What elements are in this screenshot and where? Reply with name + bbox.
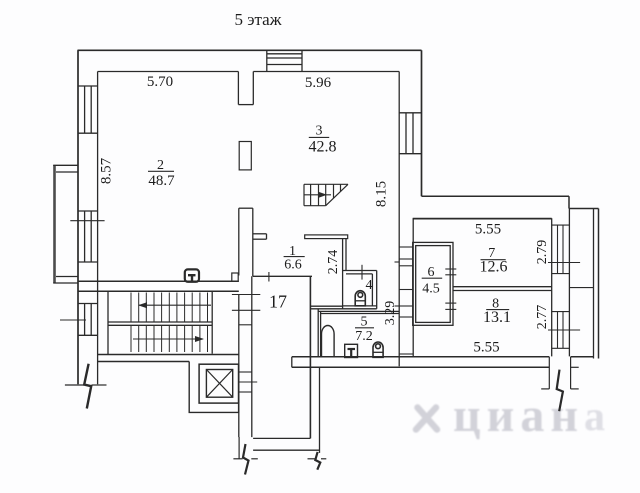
svg-text:17: 17 [269,292,287,312]
rotated dims [98,157,550,329]
bottom right pier + break [541,357,579,411]
corridor17 right wall [310,276,319,453]
stairwell box [98,291,239,362]
corridor17 left hatched wall [232,276,260,437]
svg-text:5.55: 5.55 [475,222,501,238]
svg-text:7.2: 7.2 [355,329,373,344]
window right of room3 [399,113,421,154]
svg-text:5.70: 5.70 [147,74,173,90]
rooms7/8 right window wall [552,209,570,357]
inner left wall [97,72,99,385]
room2 bottom wall [78,281,239,291]
svg-text:6.6: 6.6 [284,258,302,273]
window W2 left (balcony door) [70,211,104,262]
bathtub [322,326,335,358]
break symbol left wall bottom [65,364,107,409]
svg-text:циан: циан [453,389,584,442]
window room7 [548,225,580,274]
window room8 [548,312,580,349]
svg-text:4.5: 4.5 [422,282,440,297]
svg-text:2.79: 2.79 [535,240,550,265]
bottom wall main [292,357,594,368]
svg-text:3: 3 [316,124,323,139]
shaft strip walls [395,218,414,356]
window W1 left [78,86,98,133]
vent icon T on wall [185,269,199,281]
svg-text:48.7: 48.7 [148,173,175,189]
svg-text:2.74: 2.74 [326,250,341,275]
room7/8 left wall door ticks [445,269,456,309]
balcony left [53,165,78,283]
stair treads [108,293,212,353]
room5 block walls [310,306,399,357]
texts dims top [147,74,501,356]
right wing inner top wall [413,218,552,220]
right wing outer top [422,196,599,208]
wc4 right wall [372,271,376,309]
wc4 bottom wall [310,306,376,309]
pilaster on wall [232,273,238,281]
stair arrow down [133,336,204,342]
hall bottom wall / corridor top [253,272,312,282]
stair arrow up [138,302,211,308]
toilet room5 [373,342,383,357]
hall1 left wall [239,208,253,276]
watermark ЦИАН [416,389,605,442]
outer left wall [77,50,79,384]
svg-text:а: а [584,394,605,440]
svg-text:13.1: 13.1 [483,309,511,326]
svg-text:42.8: 42.8 [309,139,337,156]
wall hall/wc4 vertical [343,239,346,309]
mini stair room3 [304,184,348,205]
hall1 wall stub [253,234,267,239]
outer right wall top block [421,50,423,196]
duct column room2/3 [239,142,251,170]
svg-text:3.29: 3.29 [383,301,398,326]
svg-text:5 этаж: 5 этаж [235,10,282,29]
window W3 left (stair) [60,304,98,336]
svg-text:8.15: 8.15 [373,181,389,207]
outer top wall [78,49,422,51]
right wing outer right wall [594,209,599,359]
toilet wc4 [355,291,365,306]
inner top wall room3 [253,71,399,73]
elevator shaft [189,362,238,413]
corridor17 bottom wall [253,438,319,450]
top pier between room2 and room3 [238,72,253,105]
svg-text:5.55: 5.55 [473,340,499,356]
room6 box double outline [413,242,453,325]
fraction lines [148,137,509,327]
inner right wall (long) [398,72,400,367]
vestibule break bottom [233,437,326,475]
wc4 top wall [343,265,377,280]
window top room3 [267,50,302,71]
svg-text:8.57: 8.57 [98,157,114,184]
inner top wall room2 [98,71,239,73]
svg-text:2.77: 2.77 [535,305,550,330]
wall between room7 and room8 [454,287,552,291]
room labels [148,124,511,344]
svg-text:4: 4 [366,278,373,293]
sink [345,344,358,357]
closet bar wall [305,235,348,239]
loggia divider [569,287,593,289]
svg-text:12.6: 12.6 [480,258,508,275]
svg-text:5.96: 5.96 [305,75,332,91]
